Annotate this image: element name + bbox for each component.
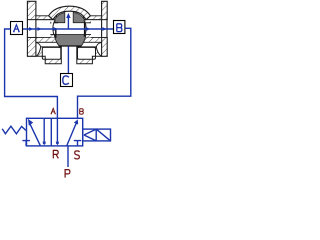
flow path vertical 1	[43, 118, 45, 142]
spring return left	[2, 126, 26, 134]
seat left	[55, 28, 57, 38]
upper-right wedge of ball	[73, 12, 84, 22]
bore passage white band	[28, 20, 106, 37]
node B box	[114, 21, 125, 34]
flange side edges across bore gap	[26, 20, 28, 38]
pilot actuator box right	[83, 129, 111, 141]
bore narrowing hatch patches near seats	[50, 35, 55, 38]
ball silhouette right arc	[84, 20, 86, 36]
ball (grey) with T-bore	[54, 12, 86, 46]
right diagonal flow path (P to B)	[67, 122, 77, 145]
bore edge lines	[36, 19, 57, 21]
bottom left wing with pocket	[37, 47, 62, 64]
up arrowhead	[66, 13, 70, 18]
wire ball to C box	[67, 46, 69, 73]
right port tube wall top	[84, 16, 102, 20]
wire P stub below valve	[67, 146, 69, 167]
pilot diagonal	[96, 129, 110, 141]
flow path vertical 2	[50, 118, 52, 146]
bottom right wing with pocket	[77, 47, 101, 64]
fillet outlines at tube/bowl junctions	[36, 43, 41, 47]
blocked port T right	[74, 141, 82, 146]
node C box	[61, 74, 73, 87]
arrowhead on right diagonal (up to B)	[74, 119, 78, 124]
port label B	[80, 109, 84, 114]
down arrowhead on flow path vertical 1	[42, 142, 46, 146]
pilot triangle	[84, 129, 96, 141]
ball silhouette left arc	[53, 20, 55, 36]
node A box	[11, 22, 23, 35]
wire B box right loop	[78, 28, 131, 118]
flow path vertical 3 (A to R)	[56, 118, 58, 142]
wire A box left loop	[5, 29, 58, 118]
dome bonnet band over ball	[49, 6, 91, 20]
arrowhead 5	[102, 27, 106, 31]
flow line A to B	[22, 28, 113, 30]
bore step edges	[50, 34, 55, 36]
arrowhead 1	[29, 27, 33, 31]
bore edge near ball right	[85, 22, 91, 24]
vertical branch up in ball slot	[67, 16, 69, 29]
port label P	[65, 170, 70, 178]
arrowhead on left diagonal (up)	[28, 119, 33, 126]
down arrowhead on flow path vertical 3	[56, 142, 60, 146]
arrowhead 4	[86, 27, 90, 31]
ball flat bottom edge	[59, 45, 82, 47]
left diagonal flow path	[30, 124, 41, 146]
blocked port T left	[22, 141, 30, 146]
valve 5/2 body	[27, 118, 83, 146]
arrowhead 3	[54, 27, 58, 31]
upper-left wedge of ball	[55, 13, 65, 23]
port label S	[75, 151, 80, 159]
port label A	[51, 108, 56, 113]
port label R	[53, 150, 58, 158]
port tube wall bottom band	[36, 37, 102, 42]
seat right	[84, 23, 86, 36]
arrowhead 2	[38, 27, 42, 31]
lower ball segment	[54, 35, 86, 46]
valve body left flange A	[27, 1, 36, 56]
valve body right flange B	[102, 1, 108, 56]
left port tube wall top	[36, 16, 57, 20]
